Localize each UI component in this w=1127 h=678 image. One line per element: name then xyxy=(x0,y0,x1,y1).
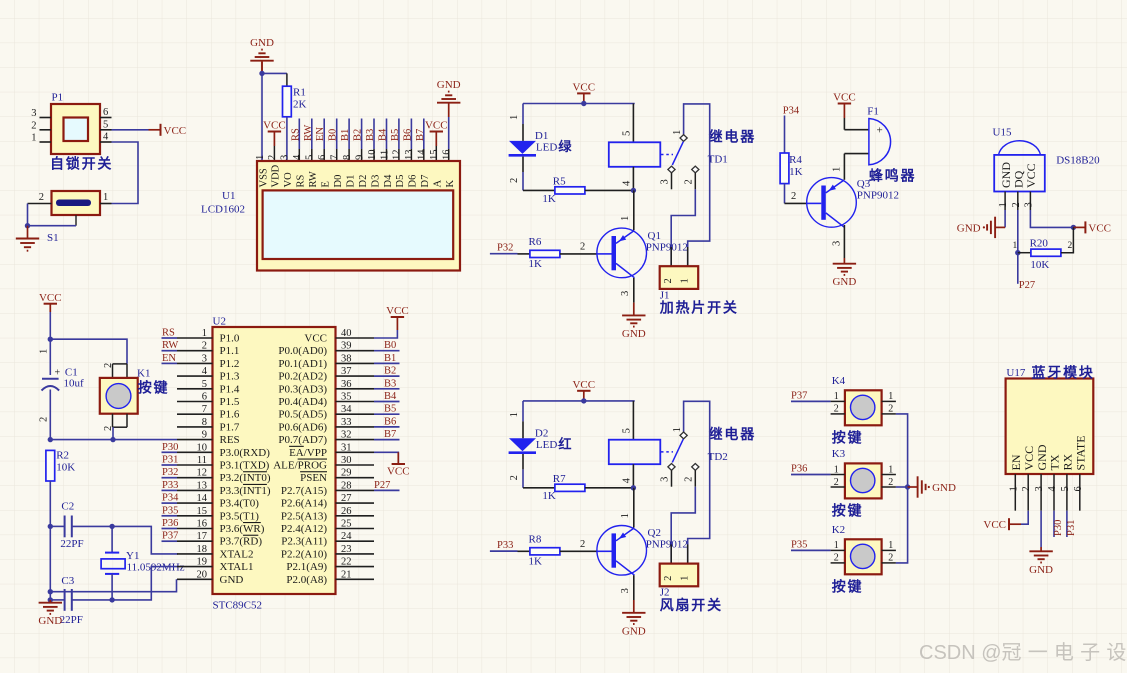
svg-text:RW: RW xyxy=(308,171,319,187)
connector J2 xyxy=(660,544,723,613)
ground below U17 xyxy=(1029,547,1053,576)
svg-text:25: 25 xyxy=(341,519,352,530)
wire Q3 collector to buzzer xyxy=(832,154,869,180)
svg-text:P33: P33 xyxy=(162,480,178,491)
svg-text:2: 2 xyxy=(580,241,585,252)
svg-text:19: 19 xyxy=(197,557,208,568)
resistor R4 1K xyxy=(780,153,803,203)
button K2 xyxy=(831,524,896,595)
net label B7 at U2 pin 32 xyxy=(374,429,400,440)
svg-text:B5: B5 xyxy=(390,129,401,141)
wire VCC node to button K1 xyxy=(50,339,127,364)
svg-text:RX: RX xyxy=(1061,453,1075,470)
svg-text:2: 2 xyxy=(509,178,520,183)
wire rail bottom xyxy=(48,526,53,602)
svg-text:D2: D2 xyxy=(535,427,548,439)
net label B3 at U2 pin 36 xyxy=(374,378,400,389)
svg-text:蓝牙模块: 蓝牙模块 xyxy=(1032,364,1095,380)
ground below Q1 xyxy=(622,303,646,340)
svg-text:34: 34 xyxy=(341,404,352,415)
svg-text:16: 16 xyxy=(442,150,453,161)
svg-text:U17: U17 xyxy=(1006,367,1025,379)
svg-text:13: 13 xyxy=(197,480,208,491)
svg-text:1: 1 xyxy=(834,391,839,402)
svg-text:9: 9 xyxy=(354,155,365,160)
svg-text:1: 1 xyxy=(103,192,108,203)
svg-text:22PF: 22PF xyxy=(60,614,83,626)
svg-text:B6: B6 xyxy=(402,129,413,141)
power VCC rail of TD1 block xyxy=(572,82,595,104)
svg-text:10K: 10K xyxy=(1030,259,1049,271)
svg-text:U15: U15 xyxy=(993,127,1012,139)
bluetooth module U17 xyxy=(1006,364,1095,510)
svg-text:R1: R1 xyxy=(293,87,306,99)
svg-text:2: 2 xyxy=(39,417,50,422)
svg-text:P1.5: P1.5 xyxy=(220,396,240,408)
svg-text:1: 1 xyxy=(998,202,1009,207)
net label P36 at U2 pin 16 xyxy=(162,518,179,529)
svg-text:2: 2 xyxy=(834,404,839,415)
svg-text:P2.5(A13): P2.5(A13) xyxy=(281,510,327,522)
capacitor C3 22PF xyxy=(50,575,112,626)
svg-text:1: 1 xyxy=(620,513,631,518)
power VCC at LCD pin 15 xyxy=(425,120,448,161)
svg-text:自锁开关: 自锁开关 xyxy=(50,156,113,172)
wire K1 to RES wire xyxy=(110,427,115,442)
svg-text:1: 1 xyxy=(672,427,683,432)
wire C3 to XTAL1 xyxy=(109,567,178,603)
svg-text:VDD: VDD xyxy=(271,164,282,187)
svg-text:VCC: VCC xyxy=(572,82,595,94)
svg-text:P0.2(AD2): P0.2(AD2) xyxy=(278,371,327,383)
svg-text:2: 2 xyxy=(1068,241,1073,251)
svg-text:D0: D0 xyxy=(333,175,344,188)
svg-text:15: 15 xyxy=(197,506,208,517)
relay coil TD1 xyxy=(609,104,756,191)
svg-text:STATE: STATE xyxy=(1074,435,1088,470)
svg-text:3: 3 xyxy=(1023,202,1034,207)
power VCC at U2 pin 40 xyxy=(374,305,409,338)
relay contact pin 2 of TD1 xyxy=(684,166,699,189)
svg-text:P27: P27 xyxy=(1019,280,1035,291)
svg-text:P3.0(RXD): P3.0(RXD) xyxy=(220,447,271,459)
svg-text:2: 2 xyxy=(1011,202,1022,207)
net label P36 xyxy=(791,464,831,475)
svg-text:P31: P31 xyxy=(162,455,178,466)
wire RES net to U2 pin 9 xyxy=(50,439,177,441)
svg-text:1K: 1K xyxy=(789,166,803,178)
svg-text:RW: RW xyxy=(303,125,314,141)
svg-text:P0.3(AD3): P0.3(AD3) xyxy=(278,383,327,395)
button K1 xyxy=(100,363,170,431)
microcontroller U2 STC89C52 xyxy=(177,316,374,612)
svg-text:5: 5 xyxy=(1060,486,1071,491)
svg-text:P1.3: P1.3 xyxy=(220,371,240,383)
svg-text:B1: B1 xyxy=(340,129,351,141)
svg-text:D2: D2 xyxy=(358,175,369,188)
svg-text:20: 20 xyxy=(197,569,208,580)
power VCC rail of TD2 block xyxy=(572,379,595,401)
svg-text:D3: D3 xyxy=(370,175,381,188)
svg-text:B3: B3 xyxy=(365,129,376,141)
svg-text:LCD1602: LCD1602 xyxy=(201,204,245,216)
wire C2 to XTAL2 xyxy=(109,524,178,554)
svg-text:VCC: VCC xyxy=(39,292,62,304)
svg-text:P34: P34 xyxy=(783,106,800,117)
svg-text:P35: P35 xyxy=(791,540,807,551)
svg-text:31: 31 xyxy=(341,442,352,453)
resistor R20 10K xyxy=(1013,227,1074,271)
svg-text:P32: P32 xyxy=(497,243,513,254)
svg-text:蜂鸣器: 蜂鸣器 xyxy=(869,167,916,183)
net label B6 at U2 pin 33 xyxy=(374,416,400,427)
svg-text:VCC: VCC xyxy=(387,466,410,478)
svg-text:B4: B4 xyxy=(384,391,397,402)
resistor R2 10K xyxy=(46,450,75,530)
svg-text:1: 1 xyxy=(888,464,893,475)
svg-text:37: 37 xyxy=(341,366,352,377)
svg-text:R7: R7 xyxy=(553,473,566,485)
svg-text:TD2: TD2 xyxy=(708,451,728,463)
svg-text:10: 10 xyxy=(197,442,208,453)
svg-text:2: 2 xyxy=(1021,486,1032,491)
wire relay to Q2 collector xyxy=(620,488,634,528)
wire D2 to R7 xyxy=(509,454,555,488)
svg-text:P27: P27 xyxy=(374,480,390,491)
svg-text:D1: D1 xyxy=(345,175,356,188)
svg-text:继电器: 继电器 xyxy=(709,426,756,442)
svg-text:2: 2 xyxy=(663,576,674,581)
wire Q1 emitter to ground xyxy=(620,278,634,303)
svg-text:3: 3 xyxy=(31,108,36,119)
svg-text:RS: RS xyxy=(162,328,175,339)
resistor R5 1K xyxy=(542,176,634,205)
svg-text:GND: GND xyxy=(437,79,461,91)
svg-text:3: 3 xyxy=(660,477,671,482)
relay coil TD2 xyxy=(609,401,756,488)
svg-text:4: 4 xyxy=(202,366,208,377)
svg-text:VCC: VCC xyxy=(833,92,856,104)
svg-text:P37: P37 xyxy=(162,531,178,542)
svg-text:11.0592MHz: 11.0592MHz xyxy=(127,562,185,574)
svg-text:U1: U1 xyxy=(222,190,235,202)
svg-text:24: 24 xyxy=(341,531,352,542)
wire Q2 emitter to ground xyxy=(620,575,634,600)
svg-text:2K: 2K xyxy=(293,99,307,111)
wire and net label B1 at LCD pin 8 xyxy=(340,119,351,162)
svg-text:11: 11 xyxy=(197,455,207,466)
svg-text:30: 30 xyxy=(341,455,352,466)
wire Q3 emitter to ground xyxy=(832,225,845,258)
svg-text:2: 2 xyxy=(663,278,674,283)
svg-text:P2.7(A15): P2.7(A15) xyxy=(281,485,327,497)
svg-text:2: 2 xyxy=(834,553,839,564)
svg-text:P2.1(A9): P2.1(A9) xyxy=(286,561,327,573)
svg-text:Y1: Y1 xyxy=(126,550,139,562)
relay contact common pin 1 of TD2 xyxy=(672,401,710,563)
svg-text:1: 1 xyxy=(202,328,207,339)
relay contact common pin 1 of TD1 xyxy=(672,104,710,266)
node relay TD1 pin4 xyxy=(631,188,636,193)
transistor Q1 PNP9012 xyxy=(597,228,688,278)
svg-text:3: 3 xyxy=(832,241,843,246)
svg-text:2: 2 xyxy=(791,191,796,202)
svg-text:P34: P34 xyxy=(162,493,179,504)
wire R4 to Q3 base xyxy=(785,191,807,203)
svg-text:1: 1 xyxy=(620,216,631,221)
svg-text:EN: EN xyxy=(315,127,326,141)
svg-text:P35: P35 xyxy=(162,505,178,516)
ground below Q3 xyxy=(832,258,856,288)
svg-text:38: 38 xyxy=(341,353,352,364)
svg-text:2: 2 xyxy=(888,553,893,564)
svg-text:1K: 1K xyxy=(542,193,556,205)
wire S1 pin2 to ground xyxy=(25,204,76,229)
svg-text:2: 2 xyxy=(684,477,695,482)
wire and net label B6 at LCD pin 13 xyxy=(402,119,413,162)
svg-text:GND: GND xyxy=(957,222,981,234)
svg-text:P1.1: P1.1 xyxy=(220,345,240,357)
net label B2 at U2 pin 37 xyxy=(374,366,400,377)
wire buttons to common ground bus xyxy=(896,414,910,563)
ground right of buttons xyxy=(908,476,956,497)
svg-text:1: 1 xyxy=(672,130,683,135)
svg-text:2: 2 xyxy=(31,120,36,131)
svg-text:14: 14 xyxy=(417,149,428,160)
wire and net label B5 at LCD pin 12 xyxy=(390,119,401,162)
svg-text:6: 6 xyxy=(317,155,328,160)
LED D2 xyxy=(509,401,574,453)
svg-text:绿: 绿 xyxy=(559,139,574,154)
node relay TD2 pin4 xyxy=(631,485,636,490)
svg-text:VCC: VCC xyxy=(983,519,1006,531)
svg-text:P2.6(A14): P2.6(A14) xyxy=(281,498,327,510)
svg-text:B0: B0 xyxy=(384,340,396,351)
svg-text:1: 1 xyxy=(1008,486,1019,491)
svg-text:2: 2 xyxy=(39,192,44,203)
svg-text:P1.6: P1.6 xyxy=(220,409,240,421)
svg-text:P1.7: P1.7 xyxy=(220,421,240,433)
svg-text:PNP9012: PNP9012 xyxy=(646,241,688,253)
svg-text:1: 1 xyxy=(888,391,893,402)
svg-text:VO: VO xyxy=(283,172,294,188)
svg-text:1K: 1K xyxy=(529,556,543,568)
svg-text:1: 1 xyxy=(1013,241,1018,251)
svg-text:GND: GND xyxy=(1035,444,1049,470)
svg-text:P1.0: P1.0 xyxy=(220,333,240,345)
svg-text:2: 2 xyxy=(202,341,207,352)
svg-text:TD1: TD1 xyxy=(708,154,728,166)
net label P33 at U2 pin 13 xyxy=(162,480,179,491)
svg-text:B2: B2 xyxy=(384,366,396,377)
svg-text:P32: P32 xyxy=(162,467,178,478)
svg-text:B5: B5 xyxy=(384,404,396,415)
svg-text:风扇开关: 风扇开关 xyxy=(660,597,723,613)
wire and net label B2 at LCD pin 9 xyxy=(353,119,364,162)
svg-text:4: 4 xyxy=(103,132,109,143)
ground above LCD pin 1 xyxy=(250,37,274,73)
svg-text:RES: RES xyxy=(220,434,240,446)
svg-text:P2.2(A10): P2.2(A10) xyxy=(281,548,327,560)
svg-text:39: 39 xyxy=(341,341,352,352)
svg-text:P0.4(AD4): P0.4(AD4) xyxy=(278,396,327,408)
svg-text:2: 2 xyxy=(684,179,695,184)
wire top rail TD2 xyxy=(523,398,635,403)
svg-text:40: 40 xyxy=(341,328,352,339)
net label P30 at U17 TX xyxy=(1053,511,1064,537)
svg-text:P0.6(AD6): P0.6(AD6) xyxy=(278,421,327,433)
svg-text:DS18B20: DS18B20 xyxy=(1056,155,1100,167)
resistor R8 1K xyxy=(529,533,597,567)
svg-text:D4: D4 xyxy=(383,174,394,188)
svg-text:7: 7 xyxy=(202,404,207,415)
svg-text:1: 1 xyxy=(509,115,520,120)
svg-text:5: 5 xyxy=(622,428,633,433)
relay contact pin 3 of TD1 xyxy=(660,166,676,189)
capacitor C1 10uf polarized xyxy=(42,367,85,391)
svg-text:32: 32 xyxy=(341,430,352,441)
net label B1 at U2 pin 38 xyxy=(374,353,400,364)
svg-text:P1: P1 xyxy=(52,92,64,104)
svg-text:GND: GND xyxy=(622,625,646,637)
relay contact pin 2 of TD2 xyxy=(684,464,699,487)
svg-text:4: 4 xyxy=(292,154,303,160)
wire D1 to R5 xyxy=(509,157,555,191)
power VCC at LCD pin 2 xyxy=(263,120,286,161)
resistor R7 1K xyxy=(542,473,634,502)
svg-text:P2.3(A11): P2.3(A11) xyxy=(281,536,327,548)
transistor Q2 PNP9012 xyxy=(597,526,688,576)
svg-text:B6: B6 xyxy=(384,416,396,427)
net label P31 at U2 pin 11 xyxy=(162,455,179,466)
net label P35 at U2 pin 15 xyxy=(162,505,179,516)
svg-text:GND: GND xyxy=(832,276,856,288)
wire P1 pin4 to S1 pin1 xyxy=(112,142,139,204)
svg-text:GND: GND xyxy=(220,574,244,586)
svg-text:2: 2 xyxy=(103,363,114,368)
svg-text:P1.4: P1.4 xyxy=(220,383,240,395)
svg-text:P0.7(AD7): P0.7(AD7) xyxy=(278,434,327,446)
power VCC right of U15 xyxy=(1073,221,1111,234)
crystal Y1 11.0592MHz xyxy=(101,526,185,600)
svg-text:RW: RW xyxy=(162,340,178,351)
svg-text:D5: D5 xyxy=(395,175,406,188)
svg-text:PSEN: PSEN xyxy=(300,472,327,484)
svg-text:VCC: VCC xyxy=(1088,222,1111,234)
svg-text:2: 2 xyxy=(103,426,114,431)
svg-text:23: 23 xyxy=(341,544,352,555)
svg-text:2: 2 xyxy=(834,477,839,488)
svg-text:K2: K2 xyxy=(832,524,845,536)
svg-text:27: 27 xyxy=(341,493,352,504)
svg-text:2: 2 xyxy=(888,404,893,415)
svg-text:P3.5(T1): P3.5(T1) xyxy=(220,510,260,522)
svg-text:P3.3(INT1): P3.3(INT1) xyxy=(220,485,271,497)
wire U15 pin3 to VCC xyxy=(1030,210,1076,230)
svg-text:6: 6 xyxy=(202,392,207,403)
svg-text:GND: GND xyxy=(38,615,62,627)
svg-text:1: 1 xyxy=(834,540,839,551)
power VCC at U2 pin 31 EA/VPP xyxy=(374,452,410,477)
svg-text:P3.7(RD): P3.7(RD) xyxy=(220,536,263,548)
wire GND to LCD pin1 VSS xyxy=(261,73,263,161)
svg-text:C3: C3 xyxy=(61,575,74,587)
connector P1 xyxy=(31,92,111,155)
ground above LCD pin 16 xyxy=(437,79,461,161)
wire VCC to buzzer top terminal xyxy=(844,129,869,131)
svg-text:B2: B2 xyxy=(353,129,364,141)
svg-text:B7: B7 xyxy=(384,429,396,440)
button K3 xyxy=(831,448,896,519)
svg-text:15: 15 xyxy=(429,150,440,161)
svg-text:K3: K3 xyxy=(832,448,846,460)
svg-text:EN: EN xyxy=(162,353,176,364)
net label P33 xyxy=(490,540,530,551)
svg-text:P37: P37 xyxy=(791,391,807,402)
svg-text:3: 3 xyxy=(620,291,631,296)
svg-text:LED-: LED- xyxy=(536,439,561,451)
svg-text:R4: R4 xyxy=(789,154,802,166)
svg-text:CSDN @冠一电子设计: CSDN @冠一电子设计 xyxy=(919,641,1127,664)
wire and net label B4 at LCD pin 11 xyxy=(378,119,389,162)
svg-text:EA/VPP: EA/VPP xyxy=(289,447,327,459)
svg-text:16: 16 xyxy=(197,519,208,530)
svg-text:E: E xyxy=(321,181,332,187)
svg-text:VCC: VCC xyxy=(304,333,327,345)
svg-text:1: 1 xyxy=(888,540,893,551)
svg-text:21: 21 xyxy=(341,569,352,580)
svg-text:RS: RS xyxy=(290,128,301,141)
svg-text:4: 4 xyxy=(1047,486,1058,492)
svg-text:4: 4 xyxy=(622,180,633,186)
svg-text:12: 12 xyxy=(392,150,403,161)
svg-text:K: K xyxy=(445,180,456,188)
wire contact pin2 to J1 xyxy=(671,189,695,266)
svg-text:VCC: VCC xyxy=(263,120,286,132)
svg-text:P3.2(INT0): P3.2(INT0) xyxy=(220,472,271,484)
svg-text:A: A xyxy=(433,180,444,188)
net label P35 xyxy=(791,540,831,551)
svg-text:26: 26 xyxy=(341,506,352,517)
svg-text:GND: GND xyxy=(250,37,274,49)
svg-text:22: 22 xyxy=(341,557,352,568)
svg-text:红: 红 xyxy=(559,436,574,451)
svg-text:1: 1 xyxy=(31,133,36,144)
net label RS at U2 pin 1 xyxy=(162,328,178,339)
wire U2 GND pin to rail xyxy=(50,579,176,591)
svg-text:K4: K4 xyxy=(832,375,846,387)
svg-text:12: 12 xyxy=(197,468,208,479)
wire and net label RW at LCD pin 5 xyxy=(303,119,314,162)
svg-text:1K: 1K xyxy=(542,490,556,502)
svg-text:8: 8 xyxy=(202,417,207,428)
svg-text:P33: P33 xyxy=(497,540,513,551)
svg-text:10: 10 xyxy=(367,150,378,161)
svg-text:1K: 1K xyxy=(529,258,543,270)
svg-text:10uf: 10uf xyxy=(64,378,85,390)
svg-text:P0.1(AD1): P0.1(AD1) xyxy=(278,358,327,370)
LED D1 xyxy=(509,104,574,156)
button K4 xyxy=(831,375,896,446)
svg-text:GND: GND xyxy=(932,482,956,494)
svg-text:2: 2 xyxy=(580,539,585,550)
transistor Q3 PNP9012 xyxy=(807,178,899,228)
net label EN at U2 pin 3 xyxy=(162,353,178,364)
net label RW at U2 pin 2 xyxy=(162,340,179,351)
svg-text:加热片开关: 加热片开关 xyxy=(659,300,739,316)
wire R1 to LCD pin3 VO xyxy=(286,117,288,161)
power VCC at buzzer xyxy=(833,92,856,130)
